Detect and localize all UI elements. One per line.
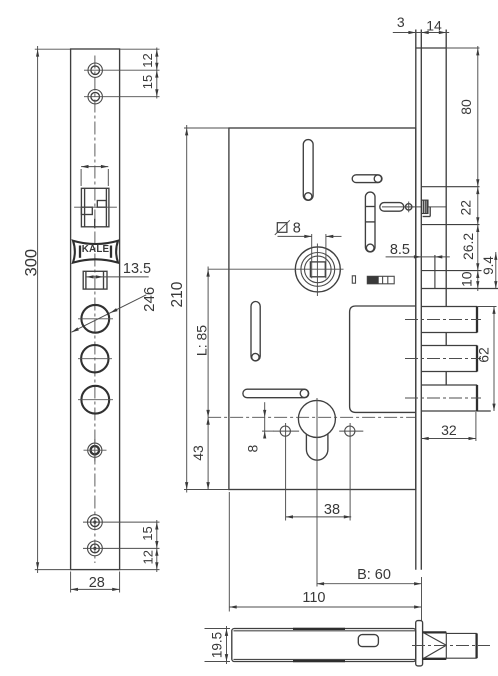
deadbolt 3 side [421,384,477,386]
big hole 3 [81,386,109,414]
extension lines bottom holes [83,521,160,523]
dimension 62 [477,306,496,308]
svg-text:13.5: 13.5 [123,261,151,277]
latch opening lines [421,186,479,188]
bottom view case [232,629,416,662]
svg-text:32: 32 [441,422,457,438]
latch width dimension arrows [81,166,108,168]
middle small hole [88,443,102,457]
svg-text:22: 22 [457,200,473,216]
svg-text:8.5: 8.5 [390,242,410,258]
svg-text:12: 12 [140,550,155,564]
dimension L:85 [207,267,209,490]
svg-text:19.5: 19.5 [210,632,225,658]
svg-text:246: 246 [141,287,158,312]
svg-text:L: 85: L: 85 [194,325,210,356]
faceplate side view back line [420,30,422,570]
svg-text:26.2: 26.2 [460,233,476,260]
svg-text:62: 62 [476,347,492,363]
deadbolt 1 side [421,306,477,308]
slot capsule right vertical [365,192,375,252]
svg-text:15: 15 [140,75,155,89]
dimension 12 (top) [156,48,158,99]
slot capsule horizontal upper [352,175,382,183]
leader 246 [72,295,147,332]
screw hole top 1 [88,63,102,77]
latch slot and pivot [382,206,446,208]
dimension 9.4 [495,252,497,289]
horizontal dash centerline [208,416,416,418]
latch bolt side (hatched) [422,200,428,213]
svg-text:28: 28 [89,575,105,591]
deadbolt 2 side [421,345,477,347]
svg-text:10: 10 [459,271,475,287]
cylinder housing side [434,255,436,289]
case top edge [416,47,446,49]
bottom view small rounded hole [358,635,378,647]
lock case outline [229,128,416,490]
square 8 dimension [311,234,313,278]
dimension column 80/22/26.2/10 [477,46,479,291]
svg-text:110: 110 [302,590,325,606]
vertical centerline cylinder [316,398,318,587]
dimension 32 [475,412,477,441]
svg-text:B: 60: B: 60 [357,567,391,583]
bottom view dark wear strips [293,628,345,630]
dimension 300 [37,46,39,573]
svg-text:38: 38 [324,502,340,518]
latch cutout [81,188,109,227]
toothed slider part [367,276,394,284]
big hole 1 [81,305,109,333]
faceplate front view outline [71,49,120,570]
faceplate side view front line [415,30,417,570]
svg-text:9.4: 9.4 [481,256,496,275]
slot capsule lower left [251,302,260,361]
dimension 8.5 [386,256,450,258]
svg-text:80: 80 [458,99,474,115]
extension lines top screw holes [84,69,160,71]
screw hole top 2 [88,90,102,104]
cylinder screw hole right [345,426,355,436]
cylinder fixing hole rect with dimension 13.5 [83,271,107,289]
bottom view faceplate [416,621,423,666]
slot capsule top [303,140,313,201]
svg-text:300: 300 [23,249,41,277]
small rect part [352,276,355,283]
screw hole bottom 2 [88,541,103,556]
dimension 43 [206,417,209,424]
screw hole bottom 1 [88,515,103,530]
slot capsule bottom horizontal [243,389,309,398]
svg-text:8: 8 [293,221,301,237]
dimension 3 and 14 [393,32,449,34]
bottom view latch bolt [423,631,447,633]
dimension 12 (bottom) [155,548,158,555]
dimension 210 [186,125,188,493]
dimension 15 (top) [155,70,158,77]
svg-text:210: 210 [169,281,186,307]
svg-text:12: 12 [140,53,155,67]
dimension 19.5 [205,628,231,630]
deadbolt housing [350,306,416,412]
KALE logo [73,241,118,263]
dimension 8 (cylinder offset) [264,402,266,437]
follower (square spindle hub) [295,247,340,292]
big hole 2 [81,345,108,372]
dimension 15 (bottom) [156,520,158,572]
svg-text:43: 43 [190,445,206,461]
svg-text:8: 8 [245,444,261,452]
dimension 110 [229,606,421,608]
svg-text:3: 3 [397,14,405,30]
svg-text:KALE: KALE [82,244,110,255]
dimension B:60 [317,583,422,585]
case back line [445,30,447,307]
euro cylinder hole [298,400,335,437]
svg-text:15: 15 [140,526,155,540]
svg-text:14: 14 [426,17,442,33]
faceplate vertical centerline [94,56,96,564]
dimension 28 [70,572,72,593]
cylinder screw hole left [280,426,290,436]
dimension 38 [286,516,352,518]
